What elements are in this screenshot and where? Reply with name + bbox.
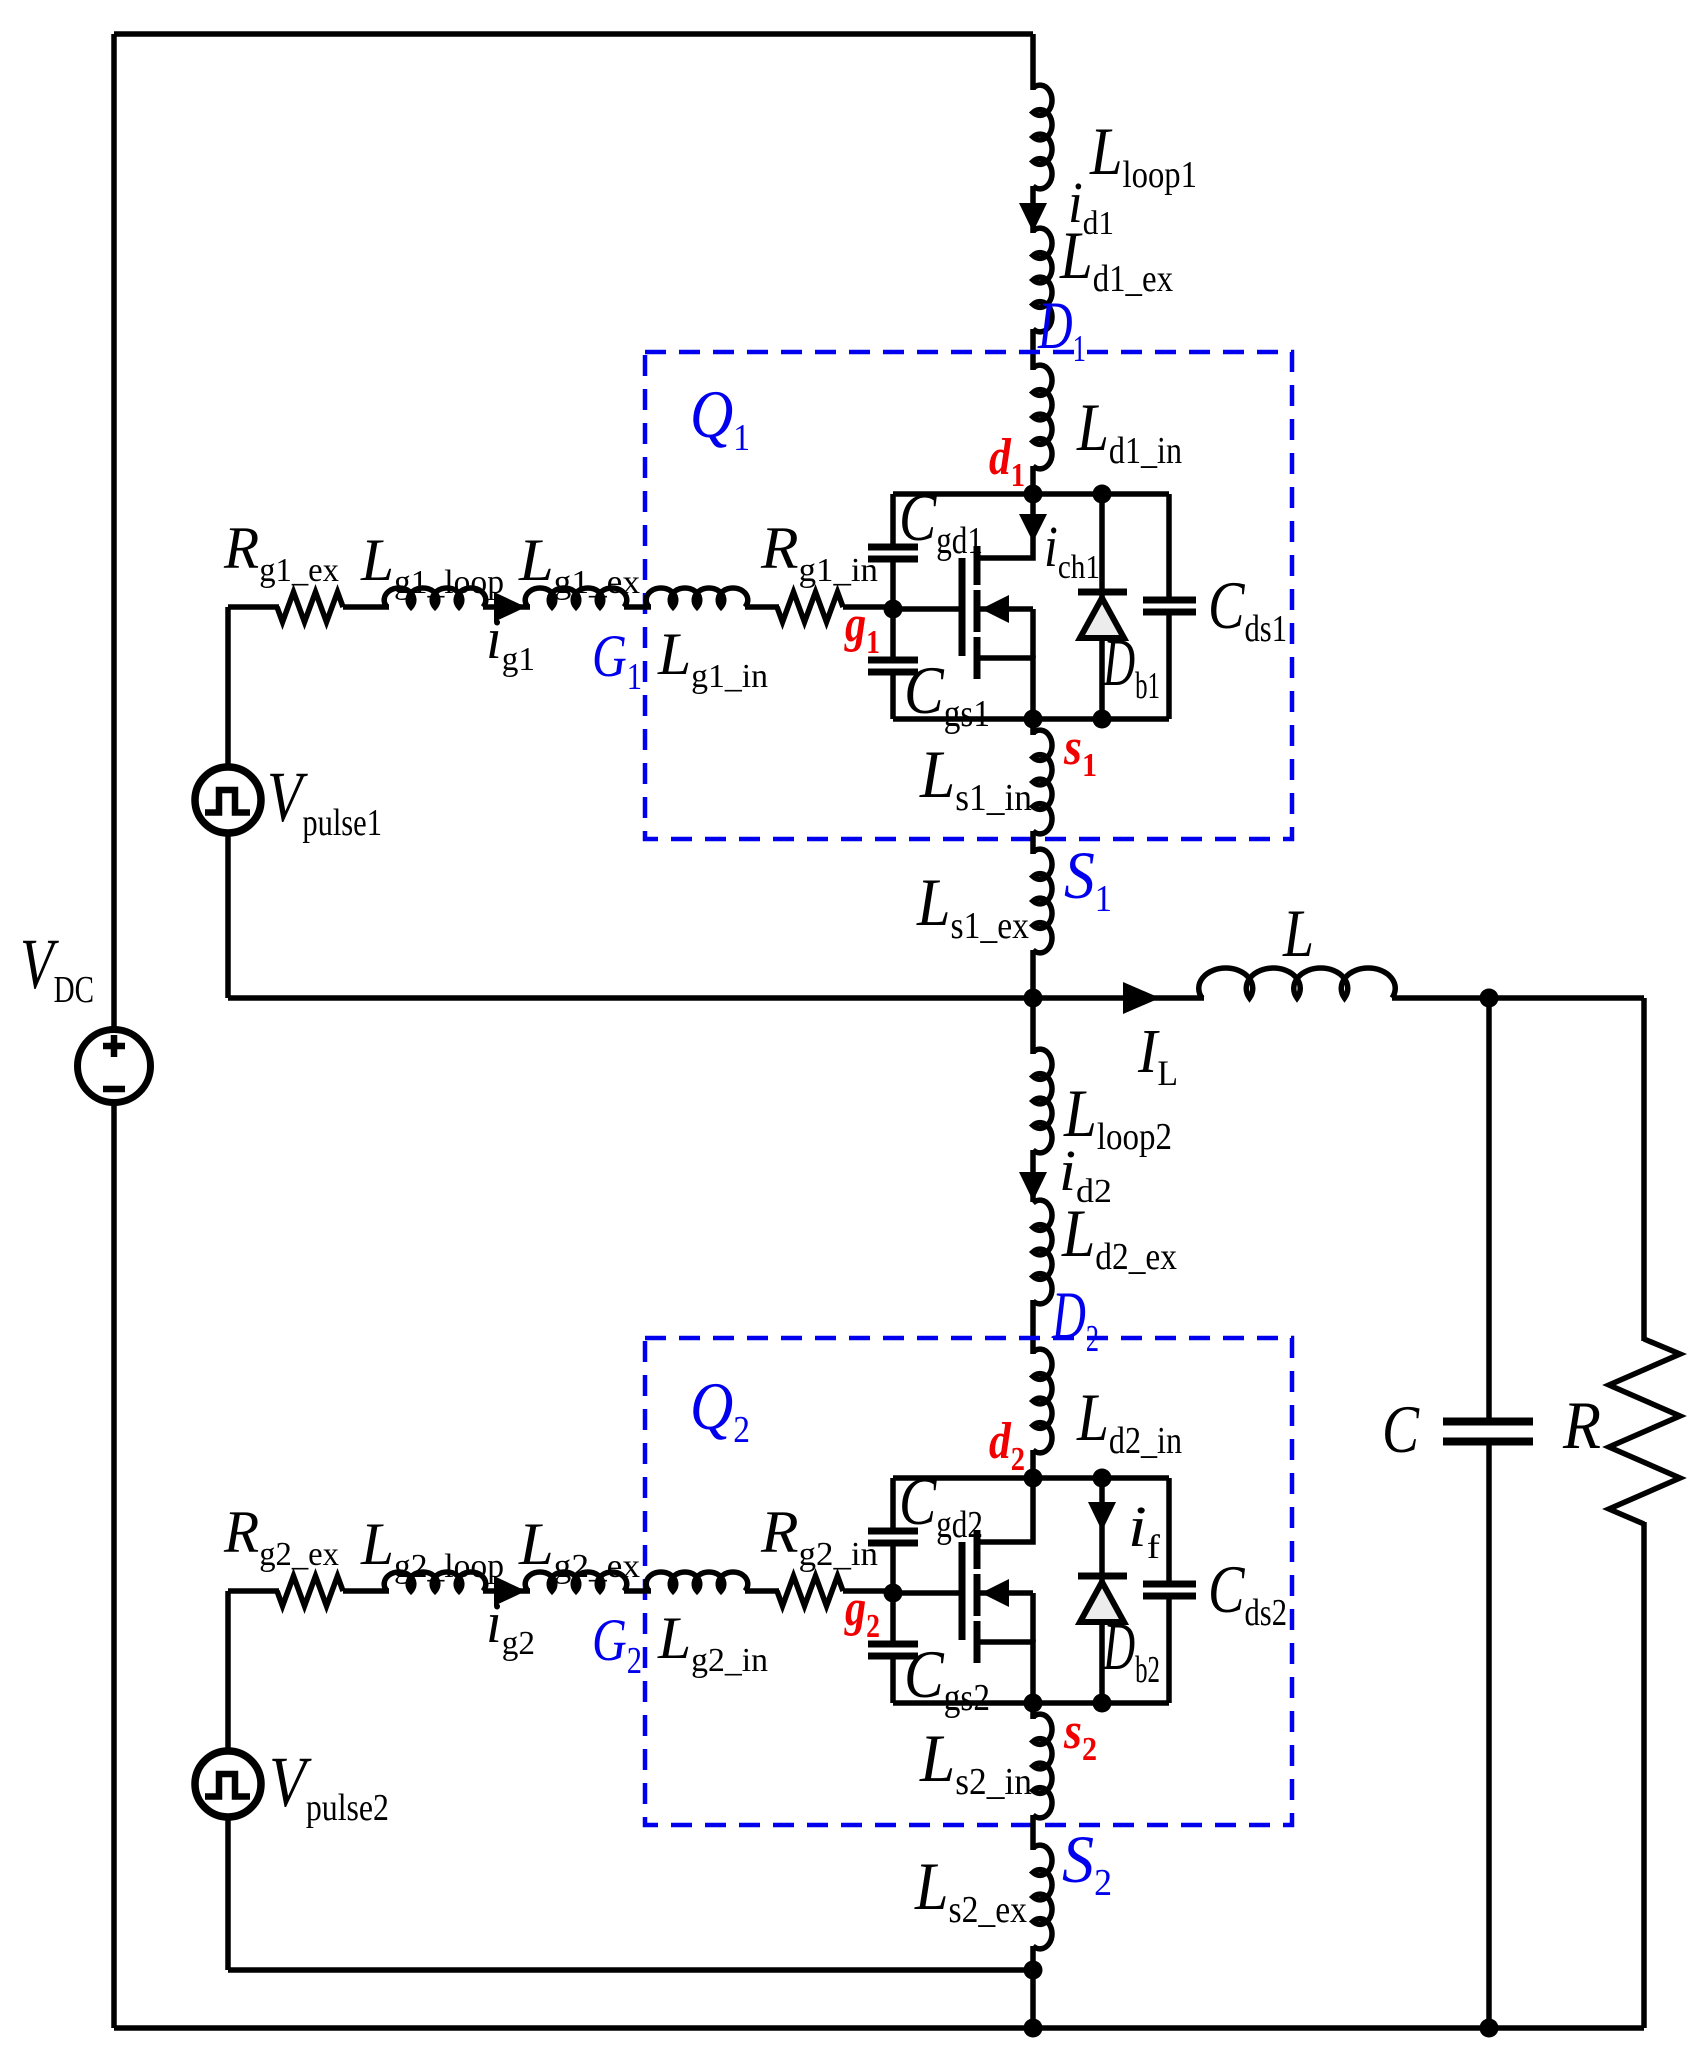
wire switch down [1030, 998, 1036, 1054]
label D_1 node [1037, 287, 1086, 370]
wire s2 to L_s2_in [1030, 1703, 1036, 1719]
label R_g2_in [760, 1499, 878, 1573]
label C_ds1 [1208, 567, 1287, 650]
label L_d2_in [1076, 1379, 1182, 1462]
wire to switch node [1030, 950, 1036, 998]
label V_DC [20, 924, 94, 1011]
wire cell bottom rail [893, 1700, 1169, 1706]
label C_gs2 [904, 1636, 990, 1719]
label R [1562, 1387, 1601, 1463]
label d_2 node [989, 1413, 1025, 1478]
label L_g1_in [657, 621, 768, 695]
wire [1030, 1150, 1036, 1202]
node bottom junction [1024, 2019, 1043, 2038]
wire to bottom [1030, 1946, 1036, 2028]
capacitor C_gs1 [868, 609, 918, 719]
label L_d1_in [1076, 389, 1182, 472]
capacitor C_gd2 [868, 1478, 918, 1593]
inductor L_d2_ex [1033, 1200, 1052, 1304]
arrow i_g1 [494, 592, 526, 622]
label i_g2 [486, 1590, 535, 1662]
capacitor C_ds1 [1143, 494, 1196, 719]
resistor R_g1_ex [277, 592, 343, 622]
wire gate2 left vertical [225, 1591, 231, 1970]
inductor L_s2_ex [1033, 1845, 1052, 1949]
wire gate1 start [228, 604, 279, 610]
voltage source V_pulse1 [195, 767, 261, 833]
node s2 junction dots [1024, 1694, 1112, 1713]
wire [343, 604, 389, 610]
label L_g1_loop [360, 527, 504, 601]
node s1 junction dots [1024, 710, 1112, 729]
label g_2 node [844, 1580, 880, 1645]
label L_g2_ex [518, 1511, 640, 1585]
diode D_b1 [1078, 494, 1127, 719]
label i_g1 [486, 606, 535, 678]
wire cell top rail [893, 491, 1169, 497]
wire to g2 [843, 1588, 893, 1594]
capacitor C_gd1 [868, 494, 918, 609]
label S_1 node [1064, 837, 1112, 920]
label i_ch1 [1044, 514, 1100, 586]
wire right down to R [1641, 998, 1647, 1341]
svg-text:C: C [1382, 1391, 1420, 1467]
wire L to right [1392, 995, 1644, 1001]
label V_pulse2 [269, 1742, 389, 1829]
label L_loop1 [1089, 113, 1197, 196]
label L_s1_in [919, 736, 1032, 819]
wire source return 2 [228, 1967, 1033, 1973]
capacitor C [1443, 998, 1533, 2028]
svg-text:L: L [1282, 895, 1314, 971]
wire trunk to d2 [1030, 1450, 1036, 1478]
inductor L_s1_in [1033, 730, 1052, 834]
label L_g2_in [657, 1605, 768, 1679]
inductor L_loop1 [1033, 85, 1052, 189]
transistor Q2 MOSFET symbol [962, 1478, 1033, 1703]
label L_s2_in [919, 1720, 1032, 1803]
label i_d1 [1068, 170, 1114, 242]
label L_d1_ex [1059, 217, 1173, 300]
label R_g2_ex [223, 1499, 339, 1573]
wire [745, 1588, 779, 1594]
label C_gd2 [899, 1463, 983, 1546]
resistor R_g2_ex [277, 1576, 343, 1606]
wire bottom border [114, 2025, 1644, 2031]
label V_pulse1 [267, 757, 382, 844]
label C_ds2 [1208, 1551, 1287, 1634]
wire [624, 1588, 651, 1594]
wire trunk to d1 [1030, 466, 1036, 494]
label L_g1_ex [518, 527, 640, 601]
label R_g1_in [760, 515, 878, 589]
wire cell bottom rail [893, 716, 1169, 722]
wire top border [114, 31, 1033, 37]
wire gate lead g2 [893, 1590, 959, 1596]
inductor L_d1_in [1033, 365, 1052, 469]
node g1 junction [884, 600, 903, 619]
label C_gd1 [899, 479, 983, 562]
node gate return junction [1024, 1961, 1043, 1980]
wire [1030, 1815, 1036, 1850]
wire to g1 [843, 604, 893, 610]
label D_b2 [1102, 1608, 1160, 1691]
node C bottom junction [1480, 2019, 1499, 2038]
inductor L_g1_in [646, 588, 748, 607]
inductor L [1199, 968, 1396, 998]
node output junction [1480, 989, 1499, 1008]
label Q_1 [690, 376, 750, 459]
arrow i_d1 [1019, 203, 1047, 232]
wire [745, 604, 779, 610]
node d1 junction dots [1024, 485, 1112, 504]
wire [1030, 1300, 1036, 1354]
label G_2 node [592, 1607, 642, 1682]
inductor L_g1_ex [525, 588, 627, 607]
wire gate1 left vertical [225, 607, 231, 998]
inductor L_d1_ex [1033, 228, 1052, 332]
wire cell top rail [893, 1475, 1169, 1481]
label G_1 node [592, 623, 642, 698]
label I_L [1137, 1018, 1178, 1093]
node g2 junction [884, 1584, 903, 1603]
label L [1282, 895, 1314, 971]
wire left border (V_DC branch) [111, 34, 117, 2028]
inductor L_s2_in [1033, 1714, 1052, 1818]
label d_1 node [989, 429, 1025, 494]
label g_1 node [844, 596, 880, 661]
dashed box Q2 [645, 1338, 1292, 1825]
wire [483, 1588, 530, 1594]
resistor R [1609, 1339, 1680, 1524]
wire [483, 604, 530, 610]
inductor L_loop2 [1033, 1049, 1052, 1153]
wire gate lead g1 [893, 606, 959, 612]
wire switch to L [1033, 995, 1204, 1001]
label i_f [1128, 1494, 1161, 1566]
arrow i_f [1088, 1502, 1116, 1531]
label L_g2_loop [360, 1511, 504, 1585]
capacitor C_gs2 [868, 1593, 918, 1703]
wire R to bottom [1641, 1522, 1647, 2028]
inductor L_d2_in [1033, 1349, 1052, 1453]
label L_s1_ex [916, 864, 1029, 947]
label R_g1_ex [223, 515, 339, 589]
label s_1 node [1063, 719, 1097, 784]
arrow I_L [1123, 982, 1160, 1014]
inductor L_g2_loop [384, 1572, 486, 1591]
wire trunk [1030, 186, 1036, 233]
svg-text:R: R [1562, 1387, 1601, 1463]
label C_gs1 [904, 652, 990, 735]
dashed box Q1 [645, 352, 1292, 839]
diode D_b2 [1078, 1478, 1127, 1703]
resistor R_g1_in [777, 592, 843, 622]
wire trunk top [1030, 34, 1036, 90]
node d2 junction dots [1024, 1469, 1112, 1488]
label C [1382, 1391, 1420, 1467]
wire [343, 1588, 389, 1594]
arrow i_d2 [1019, 1172, 1047, 1201]
wire [624, 604, 651, 610]
voltage source V_DC [78, 1030, 151, 1103]
voltage source V_pulse2 [195, 1751, 261, 1817]
label Q_2 [690, 1368, 750, 1451]
arrow i_g2 [494, 1576, 526, 1606]
resistor R_g2_in [777, 1576, 843, 1606]
inductor L_g2_ex [525, 1572, 627, 1591]
label L_s2_ex [914, 1848, 1027, 1931]
wire [1030, 831, 1036, 854]
wire trunk [1030, 329, 1036, 370]
inductor L_g1_loop [384, 588, 486, 607]
label S_2 node [1062, 1821, 1112, 1904]
inductor L_g2_in [646, 1572, 748, 1591]
wire gate2 start [228, 1588, 279, 1594]
label D_b1 [1102, 624, 1160, 707]
inductor L_s1_ex [1033, 849, 1052, 953]
capacitor C_ds2 [1143, 1478, 1196, 1703]
label L_loop2 [1063, 1075, 1172, 1158]
label D_2 node [1051, 1277, 1099, 1360]
wire s1 to L_s1_in [1030, 719, 1036, 735]
wire source return 1 [228, 995, 1033, 1001]
label s_2 node [1063, 1703, 1097, 1768]
label i_d2 [1059, 1138, 1112, 1210]
transistor Q1 MOSFET symbol [962, 494, 1047, 719]
node switch junction [1024, 989, 1043, 1008]
label L_d2_ex [1061, 1195, 1177, 1278]
